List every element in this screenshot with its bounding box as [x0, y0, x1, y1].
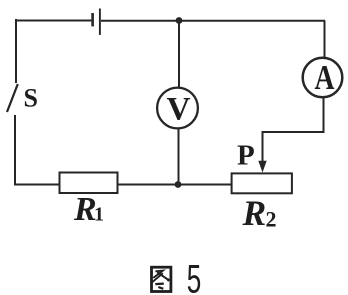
wire left lower (switch down to bottom-left corner) — [15, 115, 60, 185]
wire bottom from R1 to R2 — [118, 184, 232, 186]
svg-text:1: 1 — [94, 204, 104, 226]
battery B1 short plate — [91, 13, 94, 26]
rheostat R2 box — [232, 173, 292, 193]
svg-text:R: R — [242, 193, 267, 233]
wire top-left from corner to battery — [16, 19, 91, 21]
node junction top (voltmeter tap) — [176, 17, 183, 24]
voltmeter U1 circle — [157, 88, 198, 129]
wire left upper (corner down to switch) — [15, 21, 17, 84]
svg-text:A: A — [315, 58, 336, 97]
wire top from battery to top-right corner — [101, 20, 325, 22]
caption glyph tu (figure) drawn as strokes — [152, 267, 171, 291]
svg-text:V: V — [167, 92, 191, 128]
battery B1 long plate — [99, 9, 101, 35]
wire ammeter to rheostat wiper — [263, 97, 324, 163]
wire voltmeter bottom lead — [178, 128, 180, 184]
svg-text:2: 2 — [266, 207, 277, 232]
wire right (top-right corner down to ammeter) — [324, 21, 326, 59]
resistor R1 box — [60, 173, 118, 194]
svg-text:S: S — [24, 84, 38, 113]
svg-text:P: P — [237, 140, 255, 172]
wire voltmeter top lead — [178, 21, 180, 88]
switch S lever — [7, 84, 18, 112]
svg-text:5: 5 — [187, 258, 202, 295]
ammeter U2 circle — [303, 58, 343, 98]
node junction bottom (voltmeter tap) — [175, 181, 182, 188]
wiper arrow head P — [258, 161, 266, 173]
